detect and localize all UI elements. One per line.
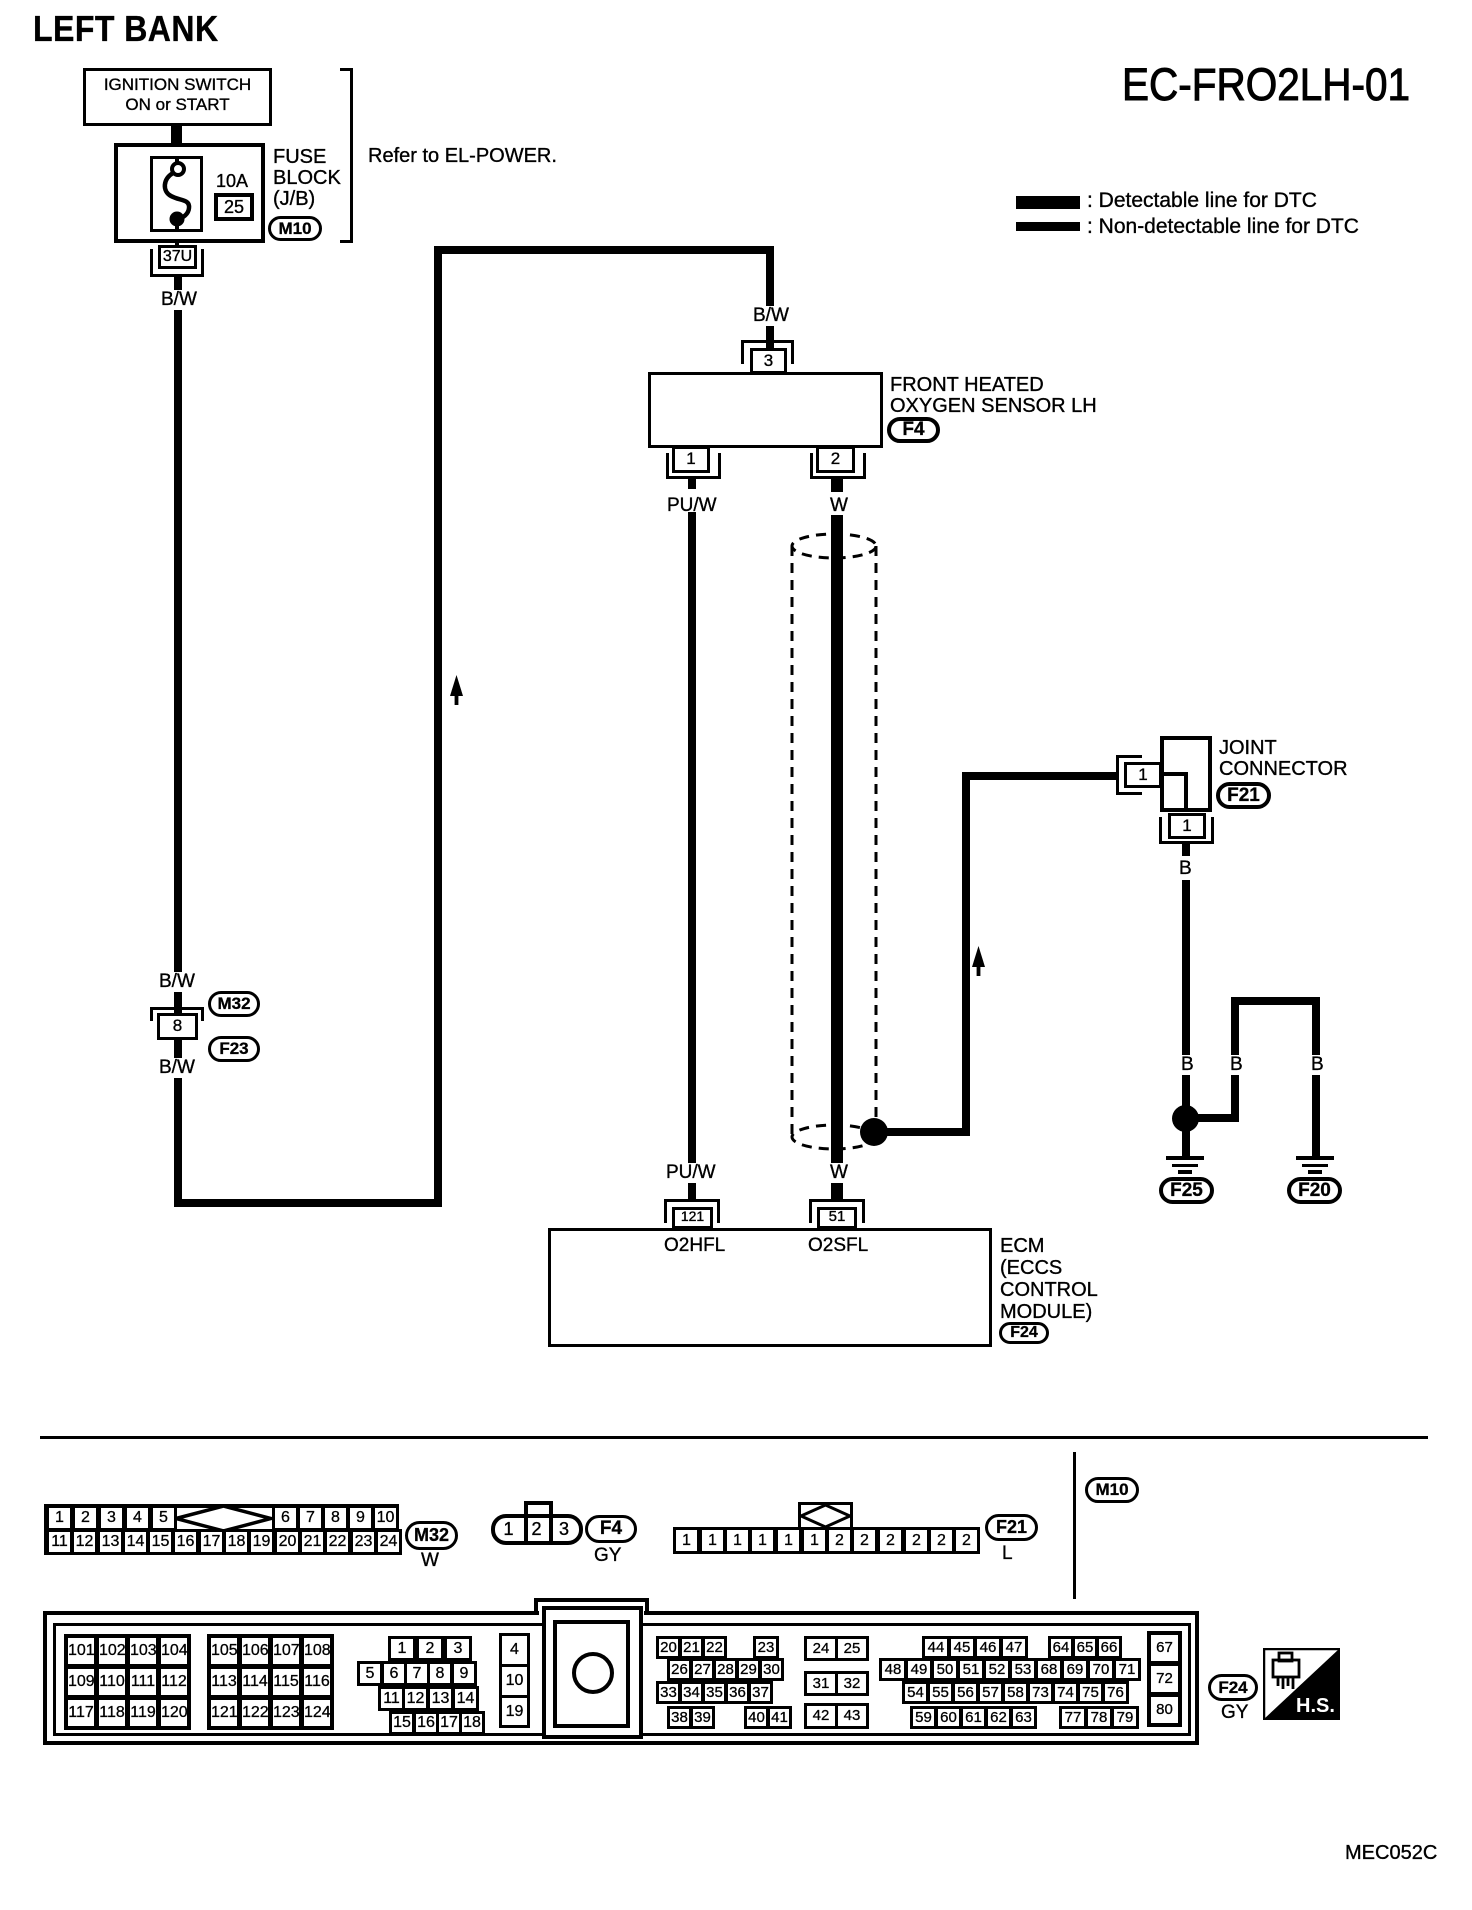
svg-text:H.S.: H.S. bbox=[1296, 1695, 1335, 1717]
